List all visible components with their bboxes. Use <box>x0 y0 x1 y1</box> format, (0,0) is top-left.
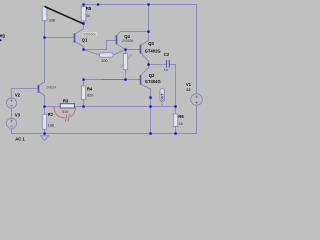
svg-text:GT404G: GT404G <box>145 79 161 84</box>
svg-text:R3: R3 <box>63 99 69 104</box>
svg-text:V1: V1 <box>186 82 192 87</box>
svg-text:AC 1: AC 1 <box>15 137 25 142</box>
svg-text:108: 108 <box>48 123 54 127</box>
svg-text:Q2: Q2 <box>149 73 155 78</box>
svg-text:GT402G: GT402G <box>145 49 161 54</box>
svg-text:16: 16 <box>179 122 183 126</box>
svg-text:34: 34 <box>86 14 90 18</box>
svg-text:R5: R5 <box>86 6 92 11</box>
svg-text:R2: R2 <box>48 112 54 117</box>
svg-text:1n: 1n <box>164 68 168 72</box>
svg-text:V3: V3 <box>15 113 21 118</box>
svg-text:2N5685: 2N5685 <box>122 39 134 43</box>
svg-text:V2: V2 <box>15 93 21 98</box>
svg-text:2N634: 2N634 <box>46 86 56 90</box>
svg-text:R6: R6 <box>178 114 184 119</box>
svg-text:Q3: Q3 <box>148 41 154 46</box>
svg-text:620: 620 <box>87 94 93 98</box>
svg-text:910: 910 <box>62 109 69 114</box>
svg-text:Q1: Q1 <box>82 38 88 43</box>
svg-text:sn9160e: sn9160e <box>83 33 96 37</box>
svg-text:R4: R4 <box>87 86 93 91</box>
svg-text:22: 22 <box>186 88 190 92</box>
svg-text:200: 200 <box>101 59 107 63</box>
svg-text:Meg: Meg <box>0 33 5 38</box>
svg-text:338: 338 <box>49 18 55 22</box>
svg-text:C2: C2 <box>164 52 170 57</box>
svg-text:OUT: OUT <box>161 93 165 101</box>
